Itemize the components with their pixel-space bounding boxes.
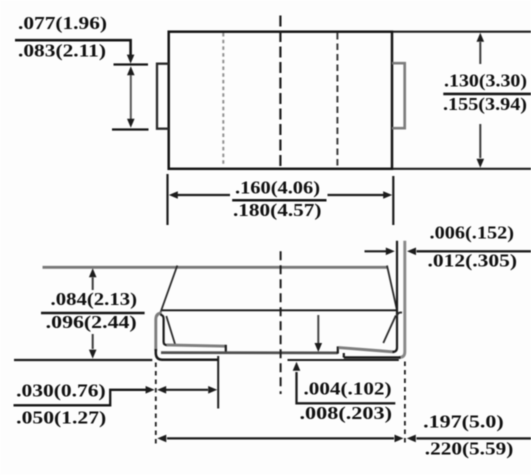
svg-text:.006(.152): .006(.152): [430, 223, 515, 243]
svg-text:.197(5.0): .197(5.0): [423, 411, 504, 431]
svg-text:.030(0.76): .030(0.76): [16, 380, 106, 400]
svg-text:.050(1.27): .050(1.27): [16, 408, 106, 428]
svg-text:.220(5.59): .220(5.59): [425, 439, 514, 459]
svg-text:.084(2.13): .084(2.13): [51, 289, 138, 309]
svg-text:.180(4.57): .180(4.57): [233, 200, 322, 220]
svg-text:.004(.102): .004(.102): [304, 379, 392, 399]
svg-text:.012(.305): .012(.305): [428, 251, 518, 271]
svg-text:.155(3.94): .155(3.94): [443, 94, 527, 114]
svg-text:.130(3.30): .130(3.30): [444, 70, 527, 90]
svg-text:.077(1.96): .077(1.96): [18, 13, 107, 33]
svg-text:.160(4.06): .160(4.06): [235, 178, 320, 198]
svg-text:.096(2.44): .096(2.44): [46, 312, 137, 332]
svg-text:.008(.203): .008(.203): [300, 403, 393, 423]
svg-text:.083(2.11): .083(2.11): [18, 40, 106, 60]
